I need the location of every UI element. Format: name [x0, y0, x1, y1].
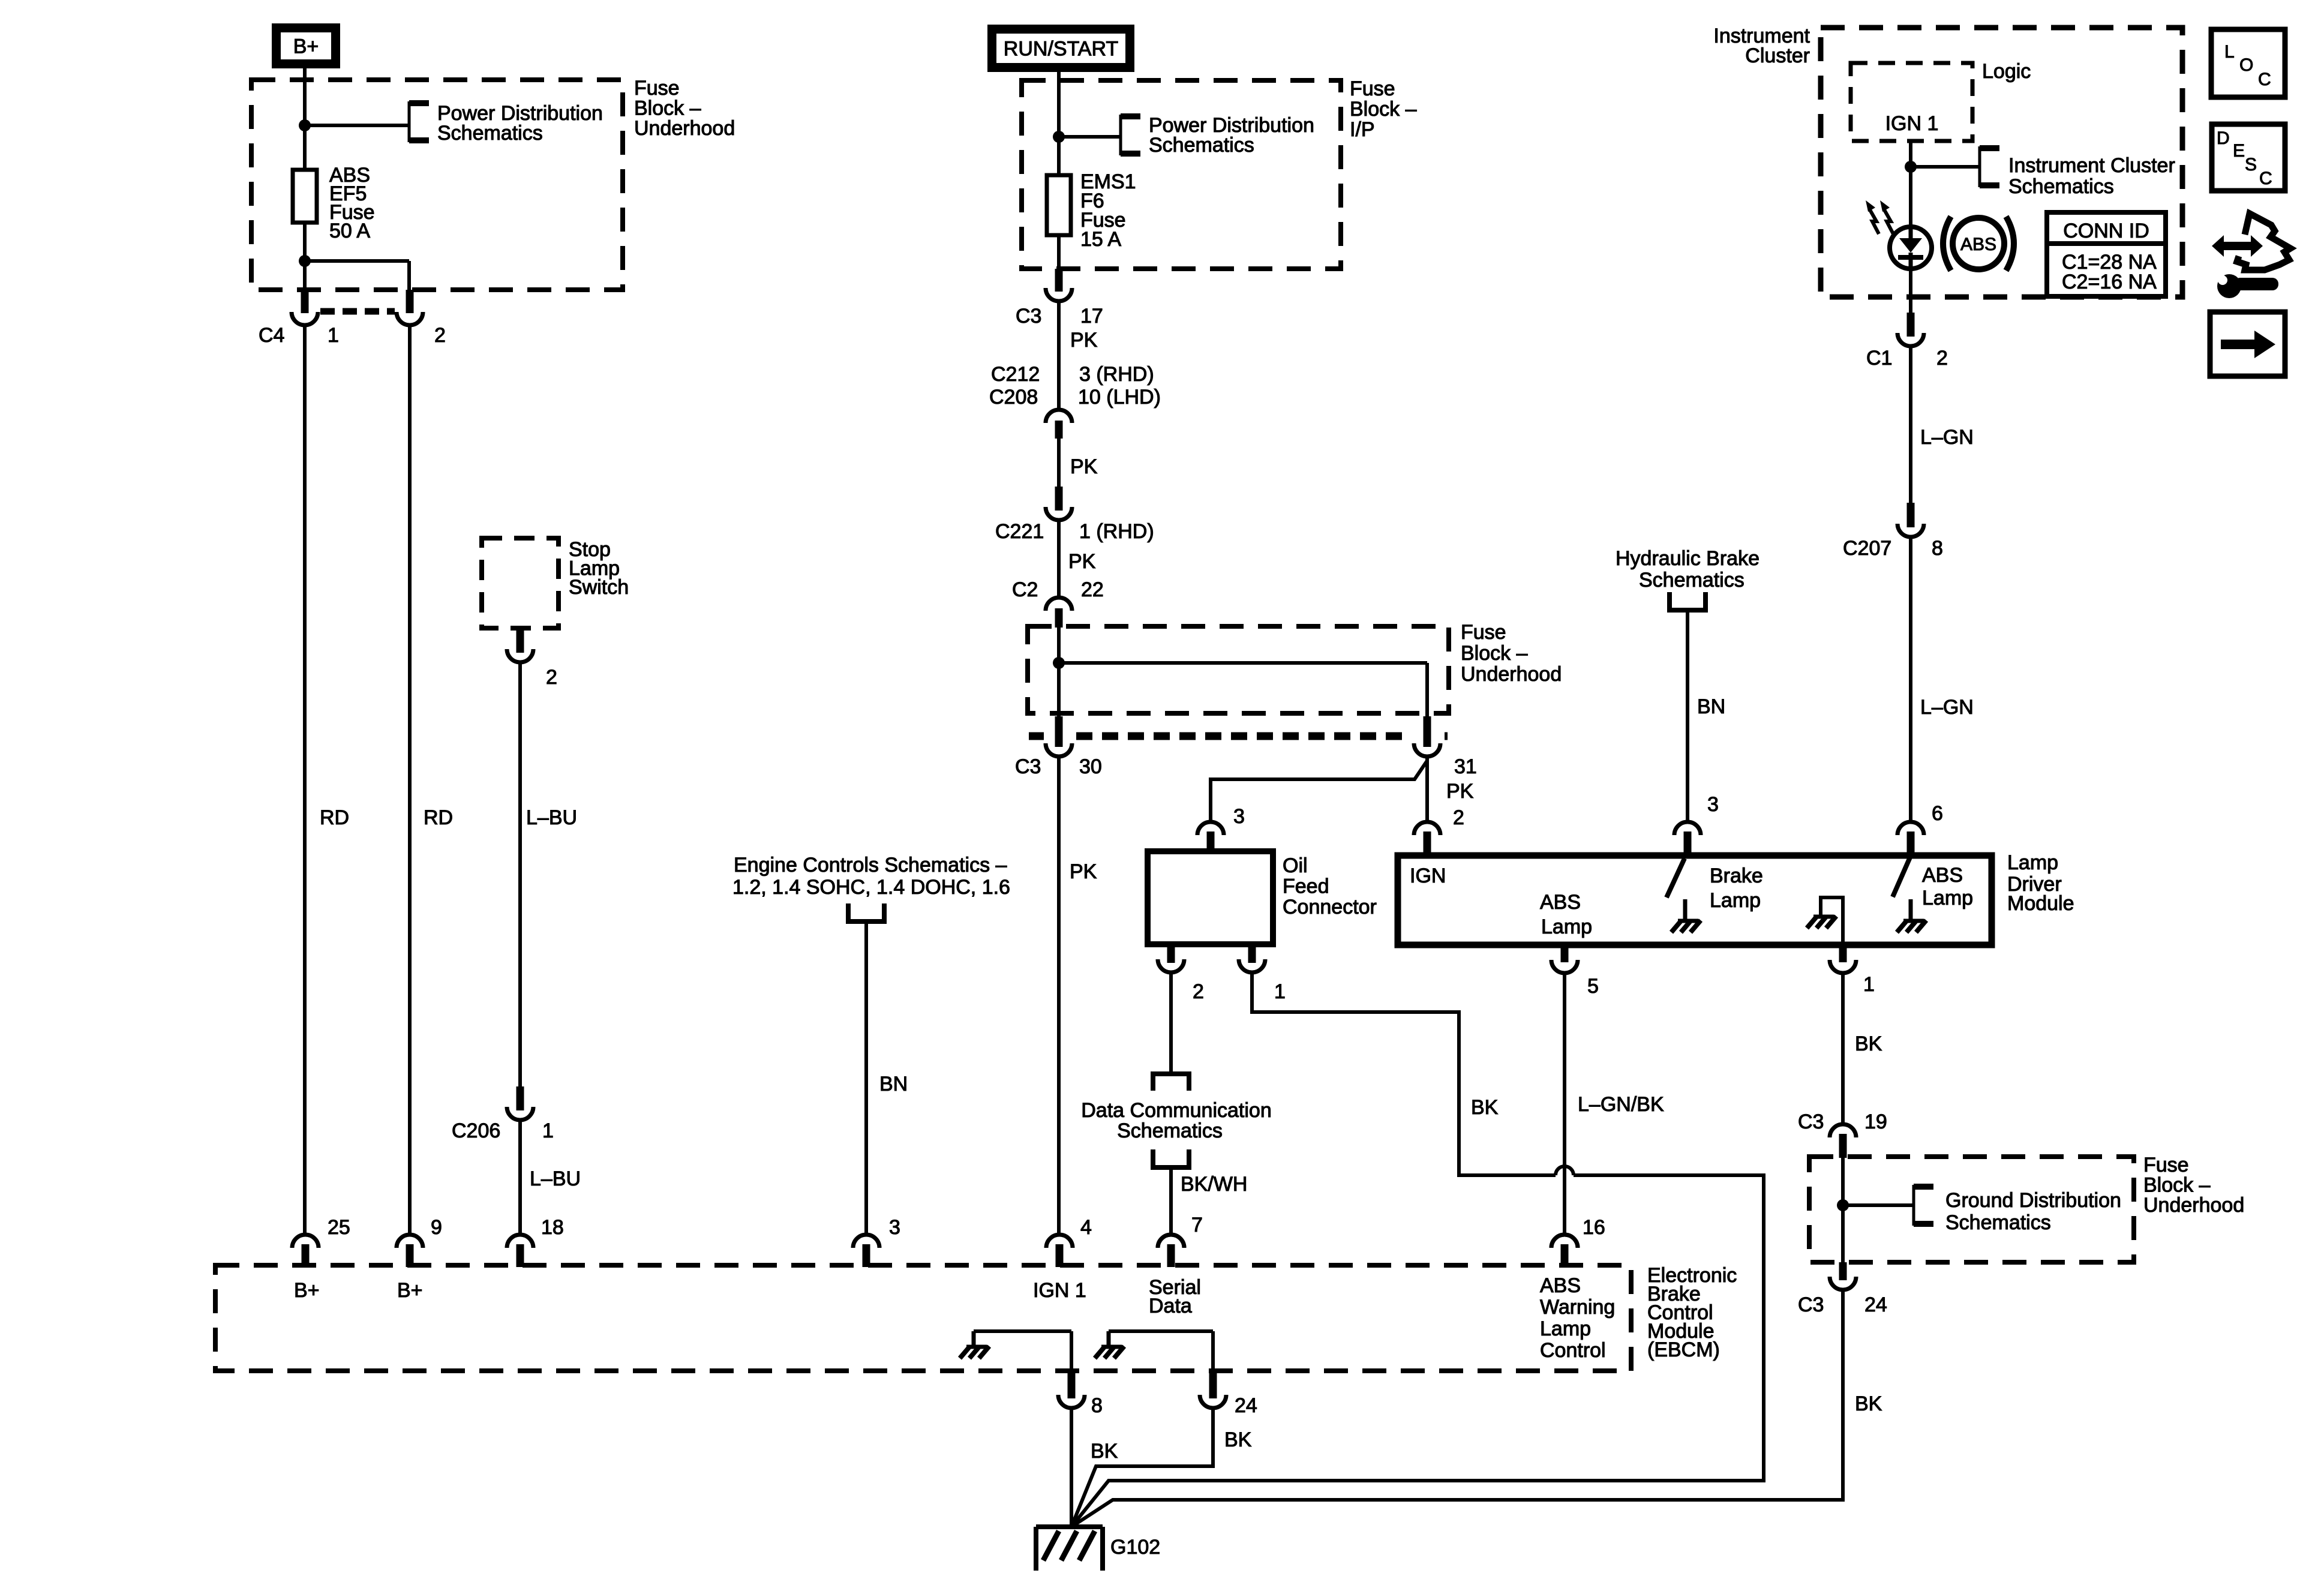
- svg-text:1: 1: [328, 324, 339, 347]
- svg-text:ABS: ABS: [1922, 864, 1963, 887]
- svg-text:Schematics: Schematics: [1117, 1119, 1223, 1142]
- svg-text:C4: C4: [259, 324, 284, 347]
- svg-text:BK: BK: [1224, 1428, 1252, 1451]
- svg-text:IGN: IGN: [1410, 864, 1446, 887]
- svg-text:C212: C212: [991, 363, 1040, 386]
- svg-text:IGN 1: IGN 1: [1885, 112, 1939, 135]
- svg-text:ABS: ABS: [1540, 1274, 1581, 1297]
- svg-text:31: 31: [1454, 755, 1477, 778]
- svg-text:L–GN: L–GN: [1920, 426, 1974, 449]
- svg-text:Schematics: Schematics: [1639, 569, 1744, 592]
- svg-text:L–BU: L–BU: [530, 1167, 581, 1190]
- svg-text:30: 30: [1079, 755, 1102, 778]
- svg-text:18: 18: [541, 1216, 564, 1239]
- svg-text:Schematics: Schematics: [437, 122, 543, 145]
- svg-text:O: O: [2239, 55, 2253, 75]
- svg-text:G102: G102: [1110, 1536, 1160, 1559]
- svg-text:Fuse: Fuse: [2143, 1154, 2189, 1176]
- svg-text:PK: PK: [1070, 329, 1098, 352]
- svg-text:L–BU: L–BU: [526, 806, 577, 829]
- svg-text:Underhood: Underhood: [634, 117, 735, 140]
- svg-text:C3: C3: [1798, 1293, 1824, 1316]
- svg-text:L–GN/BK: L–GN/BK: [1578, 1093, 1664, 1116]
- svg-text:Schematics: Schematics: [1945, 1211, 2051, 1234]
- svg-text:15 A: 15 A: [1080, 228, 1121, 251]
- svg-text:ABS: ABS: [1960, 235, 1996, 254]
- svg-text:Schematics: Schematics: [1149, 134, 1254, 157]
- svg-text:PK: PK: [1446, 780, 1474, 803]
- svg-text:C206: C206: [452, 1119, 500, 1142]
- svg-text:Lamp: Lamp: [1710, 889, 1761, 912]
- svg-text:Connector: Connector: [1283, 896, 1377, 918]
- svg-text:50 A: 50 A: [329, 220, 370, 242]
- svg-text:BK/WH: BK/WH: [1181, 1173, 1247, 1196]
- svg-text:Underhood: Underhood: [1461, 663, 1562, 686]
- svg-text:17: 17: [1080, 305, 1103, 328]
- svg-text:Lamp: Lamp: [1541, 915, 1592, 938]
- svg-text:ABS: ABS: [1540, 891, 1581, 914]
- svg-text:3: 3: [1707, 793, 1719, 816]
- svg-text:2: 2: [434, 324, 446, 347]
- svg-text:Warning: Warning: [1540, 1296, 1615, 1319]
- svg-text:BK: BK: [1855, 1392, 1882, 1415]
- svg-text:Brake: Brake: [1710, 864, 1763, 887]
- svg-text:1: 1: [1274, 980, 1286, 1003]
- svg-text:Lamp: Lamp: [2007, 851, 2058, 874]
- svg-text:C1: C1: [1866, 347, 1892, 370]
- svg-text:22: 22: [1081, 578, 1104, 601]
- svg-text:Fuse: Fuse: [1350, 77, 1395, 100]
- svg-text:D: D: [2217, 128, 2230, 148]
- svg-text:PK: PK: [1070, 860, 1097, 883]
- svg-text:Cluster: Cluster: [1745, 44, 1810, 67]
- svg-text:8: 8: [1932, 537, 1943, 560]
- svg-text:Data Communication: Data Communication: [1081, 1099, 1271, 1122]
- svg-text:5: 5: [1587, 975, 1599, 998]
- svg-text:BK: BK: [1471, 1096, 1499, 1119]
- svg-text:C3: C3: [1015, 755, 1041, 778]
- svg-text:2: 2: [546, 666, 557, 689]
- svg-text:Feed: Feed: [1283, 875, 1329, 898]
- svg-text:PK: PK: [1070, 455, 1098, 478]
- svg-text:PK: PK: [1068, 550, 1096, 573]
- svg-text:2: 2: [1936, 347, 1948, 370]
- svg-text:BN: BN: [879, 1073, 908, 1095]
- svg-text:24: 24: [1235, 1394, 1257, 1417]
- svg-text:3: 3: [1233, 805, 1245, 828]
- svg-text:1.2, 1.4 SOHC, 1.4 DOHC, 1.6: 1.2, 1.4 SOHC, 1.4 DOHC, 1.6: [732, 876, 1010, 899]
- svg-text:19: 19: [1864, 1110, 1887, 1133]
- svg-text:B+: B+: [397, 1279, 423, 1302]
- svg-text:1: 1: [542, 1119, 554, 1142]
- svg-text:4: 4: [1080, 1216, 1092, 1239]
- svg-text:Block –: Block –: [1350, 98, 1417, 121]
- svg-text:S: S: [2245, 155, 2257, 175]
- svg-text:E: E: [2233, 141, 2245, 161]
- svg-text:Hydraulic Brake: Hydraulic Brake: [1616, 547, 1759, 570]
- svg-text:9: 9: [431, 1216, 442, 1239]
- svg-text:Module: Module: [2007, 892, 2074, 915]
- svg-text:Lamp: Lamp: [1922, 887, 1973, 909]
- svg-text:Engine Controls Schematics –: Engine Controls Schematics –: [734, 854, 1007, 876]
- svg-text:Ground Distribution: Ground Distribution: [1945, 1189, 2121, 1212]
- svg-text:B+: B+: [294, 1279, 320, 1302]
- svg-text:3 (RHD): 3 (RHD): [1079, 363, 1154, 386]
- svg-text:L–GN: L–GN: [1920, 696, 1974, 719]
- svg-text:Oil: Oil: [1283, 854, 1308, 877]
- svg-text:16: 16: [1583, 1216, 1605, 1239]
- svg-text:C: C: [2258, 70, 2271, 89]
- svg-text:I/P: I/P: [1350, 118, 1375, 141]
- svg-text:Data: Data: [1149, 1295, 1192, 1317]
- svg-text:(EBCM): (EBCM): [1647, 1338, 1720, 1361]
- svg-text:BK: BK: [1855, 1032, 1882, 1055]
- svg-text:Block –: Block –: [2143, 1174, 2211, 1197]
- svg-text:C207: C207: [1843, 537, 1891, 560]
- svg-text:Fuse: Fuse: [634, 77, 680, 100]
- svg-text:B+: B+: [293, 35, 319, 58]
- svg-text:7: 7: [1191, 1214, 1203, 1236]
- svg-text:2: 2: [1453, 806, 1464, 829]
- svg-text:IGN 1: IGN 1: [1033, 1279, 1086, 1302]
- svg-text:Schematics: Schematics: [2008, 175, 2114, 198]
- svg-text:25: 25: [328, 1216, 350, 1239]
- svg-text:10 (LHD): 10 (LHD): [1078, 386, 1161, 409]
- svg-text:C2: C2: [1012, 578, 1038, 601]
- svg-text:1 (RHD): 1 (RHD): [1079, 520, 1154, 543]
- svg-text:Control: Control: [1540, 1339, 1606, 1362]
- svg-text:C: C: [2259, 169, 2272, 188]
- svg-text:RD: RD: [320, 806, 349, 829]
- svg-text:CONN ID: CONN ID: [2063, 220, 2149, 242]
- svg-text:Block –: Block –: [1461, 642, 1528, 665]
- svg-text:Fuse: Fuse: [1461, 621, 1506, 644]
- svg-text:BK: BK: [1091, 1440, 1118, 1463]
- svg-text:6: 6: [1932, 802, 1943, 825]
- svg-text:L: L: [2224, 42, 2235, 62]
- svg-text:RD: RD: [424, 806, 453, 829]
- svg-text:Block –: Block –: [634, 97, 701, 120]
- svg-text:C3: C3: [1016, 305, 1041, 328]
- svg-text:8: 8: [1091, 1394, 1103, 1417]
- svg-text:C221: C221: [995, 520, 1044, 543]
- svg-text:BN: BN: [1697, 695, 1725, 718]
- svg-text:RUN/START: RUN/START: [1004, 38, 1118, 61]
- svg-text:1: 1: [1863, 973, 1875, 996]
- svg-text:Underhood: Underhood: [2143, 1194, 2244, 1217]
- svg-text:C208: C208: [989, 386, 1038, 409]
- svg-text:2: 2: [1193, 980, 1204, 1003]
- svg-text:C3: C3: [1798, 1110, 1824, 1133]
- svg-text:Switch: Switch: [569, 576, 629, 599]
- svg-text:Instrument Cluster: Instrument Cluster: [2008, 154, 2175, 177]
- svg-text:C2=16 NA: C2=16 NA: [2062, 271, 2157, 293]
- svg-text:Lamp: Lamp: [1540, 1317, 1591, 1340]
- svg-text:24: 24: [1864, 1293, 1887, 1316]
- svg-text:Logic: Logic: [1982, 60, 2031, 83]
- svg-text:3: 3: [889, 1216, 900, 1239]
